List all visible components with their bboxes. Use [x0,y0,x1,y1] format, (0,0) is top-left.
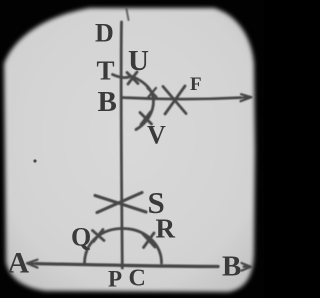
arc: lower semicircle centered C [85,229,162,264]
wire: ray E-F horizontal [122,98,241,100]
wire: vertical line C-D [121,22,122,268]
svg-text:U: U [128,45,149,77]
cross mark above V [140,112,152,125]
arrowhead right toward B [242,263,252,271]
tick through CD near T level [113,75,130,78]
svg-text:B: B [98,86,117,118]
cross mark R on arc [143,233,156,248]
cross mark big X on CD (point for S) [95,193,146,213]
arrowhead left at A [27,260,40,268]
cross mark where arc crosses EF [148,88,157,98]
cross mark big X on EF ray [163,86,186,114]
svg-text:P: P [108,267,122,292]
svg-text:Q: Q [71,223,91,252]
arc centered E from U to V [132,77,154,130]
paper blob [4,8,255,292]
svg-text:F: F [190,74,202,95]
svg-text:V: V [147,121,166,150]
cross mark below U on CD [127,72,138,84]
dot speck left [33,159,36,162]
svg-text:B: B [222,251,241,283]
arrowhead at F ray end [241,94,252,101]
wire: horizontal base line A-B [36,264,218,267]
svg-text:A: A [8,247,30,280]
svg-text:R: R [156,214,176,244]
svg-text:T: T [97,56,115,86]
svg-text:C: C [129,266,146,292]
cross mark Q on arc [93,230,105,242]
wire: faint dash at top of CD [127,9,129,20]
svg-text:D: D [95,19,114,48]
